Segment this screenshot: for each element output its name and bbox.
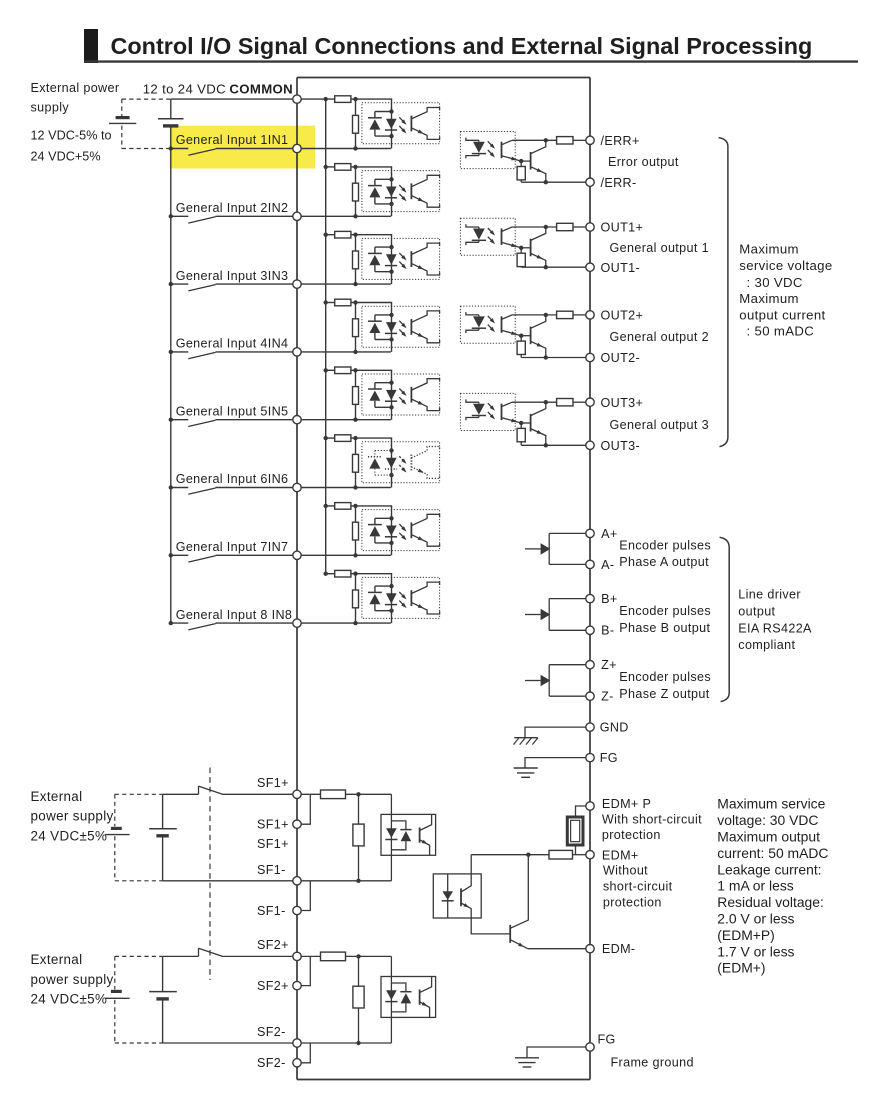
resistor R5b (parallel) bbox=[353, 370, 359, 422]
external power supply dashed box (SF2) bbox=[115, 956, 163, 1043]
svg-text:General Input 8 IN8: General Input 8 IN8 bbox=[176, 608, 293, 622]
terminal COMMON bbox=[293, 95, 301, 103]
terminal EDM+P bbox=[586, 802, 594, 810]
terminal A+ bbox=[586, 529, 594, 537]
optocoupler PC_OUT1 output bbox=[460, 218, 521, 255]
external power supply dashed box (SF1) bbox=[115, 794, 163, 881]
resistor R2a (series) bbox=[335, 164, 351, 171]
svg-text:output current: output current bbox=[739, 307, 825, 322]
svg-text:(EDM+P): (EDM+P) bbox=[717, 927, 775, 943]
label FG (frame) bbox=[598, 1033, 616, 1047]
terminal SF1- pin2 bbox=[293, 906, 301, 914]
label SF2+ pin2 bbox=[257, 979, 289, 993]
yellow highlight on General Input 1IN1 bbox=[170, 126, 316, 169]
label encoder pulses A bbox=[619, 539, 711, 553]
battery B1 24VDC bbox=[149, 794, 177, 881]
wire GND bbox=[525, 727, 586, 738]
resistor R_OUT1b bbox=[517, 248, 525, 267]
optocoupler PC5 input bbox=[362, 370, 440, 419]
optocoupler PC_OUT2 output bbox=[460, 306, 521, 343]
label A+ bbox=[601, 527, 617, 541]
label SF1- pin2 bbox=[257, 904, 286, 918]
label encoder pulses Z bbox=[619, 670, 711, 684]
svg-text:protection: protection bbox=[603, 896, 662, 910]
terminal EDM+ bbox=[586, 851, 594, 859]
resistor R6b (parallel) bbox=[353, 438, 359, 490]
svg-text:B-: B- bbox=[601, 624, 614, 638]
junction supply bus row 1 bbox=[169, 146, 173, 150]
svg-text:External power: External power bbox=[31, 81, 120, 95]
resistor R_OUT2b bbox=[517, 336, 525, 358]
label OUT1+ bbox=[601, 221, 644, 235]
terminal SF1+ bbox=[293, 790, 301, 798]
note line driver output bbox=[738, 588, 812, 653]
terminal EDM- bbox=[586, 945, 594, 953]
terminal IN8 bbox=[293, 619, 301, 627]
label SF1+ pin3 bbox=[257, 837, 289, 851]
transistor Q_OUT3 bbox=[531, 402, 546, 445]
svg-text:COMMON: COMMON bbox=[229, 82, 293, 97]
resistor R_OUT3s bbox=[557, 399, 573, 406]
terminal GND bbox=[586, 723, 594, 731]
resistor R5a (series) bbox=[335, 367, 351, 374]
svg-text:Maximum: Maximum bbox=[739, 242, 799, 257]
wire cell 6 top bbox=[326, 437, 393, 439]
svg-text:General Input 6IN6: General Input 6IN6 bbox=[176, 472, 289, 486]
resistor R3b (parallel) bbox=[353, 235, 359, 287]
wire cell 8 top bbox=[326, 573, 393, 575]
junction supply bus row 7 bbox=[169, 553, 173, 557]
resistor R_ERRb bbox=[517, 161, 525, 182]
switch input 6 bbox=[171, 488, 216, 495]
svg-text:/ERR+: /ERR+ bbox=[601, 134, 640, 148]
junction base node OUT2 bbox=[519, 334, 531, 338]
optocoupler PC_ERR output bbox=[460, 132, 521, 169]
resistor R4b (parallel) bbox=[353, 303, 359, 355]
svg-text:Frame ground: Frame ground bbox=[611, 1056, 694, 1070]
wire cell 2 top bbox=[326, 166, 393, 168]
svg-text:Without: Without bbox=[603, 864, 648, 878]
line driver phase A bbox=[525, 533, 586, 564]
junction base node OUT3 bbox=[519, 421, 531, 425]
terminal /ERR+ bbox=[586, 136, 594, 144]
junction supply bus row 6 bbox=[169, 485, 173, 489]
terminal IN1 bbox=[293, 144, 301, 152]
earth ground symbol FG bbox=[514, 768, 538, 777]
svg-text:A-: A- bbox=[601, 558, 614, 572]
wire SF2- row bbox=[163, 1042, 293, 1044]
terminal SF2+ pin2 bbox=[293, 981, 301, 989]
svg-text:General Input 1IN1: General Input 1IN1 bbox=[176, 133, 289, 147]
wire OUT2- bbox=[521, 355, 586, 359]
label General Input 4 bbox=[176, 337, 289, 351]
label external power supply (SF1) bbox=[31, 789, 114, 844]
terminal OUT1+ bbox=[586, 223, 594, 231]
svg-text:SF2+: SF2+ bbox=[257, 979, 289, 993]
resistor R2b (parallel) bbox=[353, 167, 359, 219]
svg-text:FG: FG bbox=[600, 751, 618, 765]
optocoupler PC8 input bbox=[362, 574, 440, 623]
svg-text:General Input 2IN2: General Input 2IN2 bbox=[176, 201, 289, 215]
label A- bbox=[601, 558, 614, 572]
svg-text:OUT3-: OUT3- bbox=[601, 439, 641, 453]
junction feed bus cell 1 bbox=[324, 97, 358, 101]
wire COMMON bbox=[171, 98, 392, 100]
title text bbox=[111, 33, 813, 59]
transistor Q_EDM bbox=[510, 855, 528, 949]
resistor R_SF2s bbox=[321, 952, 346, 961]
switch input 7 bbox=[171, 555, 216, 562]
wire OUT1- bbox=[521, 265, 586, 269]
wire SF2+ internal bbox=[301, 954, 391, 958]
svg-text:protection: protection bbox=[602, 828, 661, 842]
switch input 1 bbox=[171, 149, 216, 156]
switch input 5 bbox=[171, 420, 216, 427]
label Error output bbox=[608, 155, 679, 169]
label Z- bbox=[601, 690, 614, 704]
svg-text:1 mA or less: 1 mA or less bbox=[717, 878, 793, 894]
svg-text:SF1-: SF1- bbox=[257, 863, 286, 877]
right connector bus bbox=[589, 78, 591, 1080]
svg-text:voltage: 30 VDC: voltage: 30 VDC bbox=[717, 812, 818, 828]
resistor R_SF2b bbox=[353, 956, 364, 1045]
resistor R6a (series) bbox=[335, 435, 351, 442]
terminal IN5 bbox=[293, 416, 301, 424]
svg-text:External: External bbox=[31, 952, 83, 967]
label OUT2+ bbox=[601, 309, 644, 323]
svg-text:OUT1+: OUT1+ bbox=[601, 221, 644, 235]
terminal SF2+ bbox=[293, 952, 301, 960]
resistor R_SF1b bbox=[353, 794, 364, 883]
label FG bbox=[600, 751, 618, 765]
terminal /ERR- bbox=[586, 178, 594, 186]
terminal SF2- pin2 bbox=[293, 1059, 301, 1067]
terminal IN3 bbox=[293, 280, 301, 288]
optocoupler PC_SF1 bbox=[381, 794, 436, 881]
svg-text:General Input 4IN4: General Input 4IN4 bbox=[176, 337, 289, 351]
junction feed bus cell 4 bbox=[324, 300, 358, 304]
svg-text:Maximum: Maximum bbox=[739, 291, 799, 306]
svg-text:Phase A output: Phase A output bbox=[619, 555, 709, 569]
wire cell 3 top bbox=[326, 234, 393, 236]
wire EDM opto collector to EDM+ bbox=[470, 855, 472, 874]
wire EDM opto emitter to base bbox=[471, 918, 509, 934]
wire IN8 row bbox=[216, 622, 391, 624]
junction supply bus row 4 bbox=[169, 350, 173, 354]
wire IN4 row bbox=[216, 351, 391, 353]
svg-text:Maximum output: Maximum output bbox=[717, 829, 820, 845]
svg-text:SF2-: SF2- bbox=[257, 1025, 286, 1039]
terminal A- bbox=[586, 560, 594, 568]
label General Input 3 bbox=[176, 269, 289, 283]
optocoupler PC3 input bbox=[362, 235, 440, 284]
svg-text:External: External bbox=[31, 789, 83, 804]
line driver phase Z bbox=[525, 665, 586, 697]
svg-text:SF1+: SF1+ bbox=[257, 818, 289, 832]
wire SF1+ internal bbox=[301, 792, 391, 796]
svg-text:12 VDC-5% to: 12 VDC-5% to bbox=[31, 128, 112, 142]
svg-text:12 to 24 VDC: 12 to 24 VDC bbox=[143, 82, 226, 97]
label OUT1- bbox=[601, 261, 641, 275]
wire frame ground bbox=[527, 1047, 586, 1058]
label Z+ bbox=[601, 658, 617, 672]
wire IN2 row bbox=[216, 215, 391, 217]
transistor Q_OUT2 bbox=[531, 315, 546, 358]
svg-text:EDM+: EDM+ bbox=[602, 849, 639, 863]
junction supply bus row 2 bbox=[169, 214, 173, 218]
switch input 3 bbox=[171, 284, 216, 291]
label General Input 1 bbox=[176, 133, 289, 147]
svg-text:OUT2-: OUT2- bbox=[601, 351, 641, 365]
label OUT3- bbox=[601, 439, 641, 453]
label EDM+P bbox=[602, 797, 702, 842]
terminal OUT2- bbox=[586, 353, 594, 361]
switch input 2 bbox=[171, 216, 216, 223]
junction feed bus cell 2 bbox=[324, 165, 358, 169]
terminal OUT2+ bbox=[586, 311, 594, 319]
wire cell 5 top bbox=[326, 369, 393, 371]
junction supply bus row 8 bbox=[169, 621, 173, 625]
resistor R4a (series) bbox=[335, 299, 351, 306]
svg-text:SF1+: SF1+ bbox=[257, 837, 289, 851]
svg-text:General Input 7IN7: General Input 7IN7 bbox=[176, 540, 289, 554]
label COMMON bbox=[229, 82, 293, 97]
note maximum service voltage (outputs) bbox=[739, 242, 832, 339]
wire OUT2+ bbox=[512, 313, 586, 317]
wire SF1- row bbox=[163, 880, 293, 882]
junction feed bus cell 6 bbox=[324, 436, 358, 440]
bracket output group bbox=[719, 138, 728, 447]
junction feed bus cell 8 bbox=[324, 572, 358, 576]
wire OUT3- bbox=[521, 443, 586, 447]
optocoupler PC6 input bbox=[362, 438, 440, 487]
terminal OUT1- bbox=[586, 263, 594, 271]
label SF2- pin2 bbox=[257, 1056, 286, 1070]
label SF2- bbox=[257, 1025, 286, 1039]
svg-text:General Input 5IN5: General Input 5IN5 bbox=[176, 404, 289, 418]
junction supply bus row 5 bbox=[169, 418, 173, 422]
title underline bbox=[84, 60, 858, 62]
svg-text:2.0 V or less: 2.0 V or less bbox=[717, 911, 794, 927]
svg-text:: 50 mADC: : 50 mADC bbox=[747, 324, 815, 339]
terminal FG bbox=[586, 753, 594, 761]
wire IN3 row bbox=[216, 283, 391, 285]
label EDM- bbox=[602, 942, 636, 956]
earth ground symbol frame bbox=[515, 1058, 539, 1067]
svg-text:Encoder pulses: Encoder pulses bbox=[619, 539, 711, 553]
optocoupler PC2 input bbox=[362, 167, 440, 216]
terminal SF1+ pin2 bbox=[293, 820, 301, 828]
label GND bbox=[600, 721, 629, 735]
svg-text:(EDM+): (EDM+) bbox=[717, 960, 765, 976]
label General output 3 bbox=[610, 418, 709, 432]
note EDM specs bbox=[717, 796, 828, 976]
resistor R3a (series) bbox=[335, 231, 351, 238]
label /ERR- bbox=[601, 176, 637, 190]
resistor R_EDM protected (double border) bbox=[567, 806, 586, 855]
svg-text:General output 3: General output 3 bbox=[610, 418, 709, 432]
label EDM+ bbox=[602, 849, 673, 910]
bracket line driver group bbox=[720, 537, 730, 701]
svg-text:: 30 VDC: : 30 VDC bbox=[747, 275, 803, 290]
svg-text:EDM+ P: EDM+ P bbox=[602, 797, 651, 811]
wire /ERR- bbox=[521, 180, 586, 184]
label General output 1 bbox=[610, 241, 709, 255]
label SF1+ bbox=[257, 776, 289, 790]
wire OUT3+ bbox=[512, 400, 586, 404]
wire SF1- internal bbox=[301, 880, 391, 882]
svg-text:/ERR-: /ERR- bbox=[601, 176, 637, 190]
svg-text:GND: GND bbox=[600, 721, 629, 735]
terminal FG (frame) bbox=[586, 1043, 594, 1051]
svg-text:SF1+: SF1+ bbox=[257, 776, 289, 790]
svg-text:OUT2+: OUT2+ bbox=[601, 309, 644, 323]
label Frame ground bbox=[611, 1056, 694, 1070]
optocoupler PC7 input bbox=[362, 506, 440, 555]
svg-text:SF2+: SF2+ bbox=[257, 938, 289, 952]
svg-text:A+: A+ bbox=[601, 527, 617, 541]
switch safety SF2 bbox=[163, 948, 293, 956]
svg-text:EIA RS422A: EIA RS422A bbox=[738, 622, 812, 636]
label 12 VDC-5% to bbox=[31, 128, 112, 142]
top edge wire bbox=[297, 77, 590, 79]
label SF2+ bbox=[257, 938, 289, 952]
switch input 4 bbox=[171, 352, 216, 359]
label /ERR+ bbox=[601, 134, 640, 148]
line driver phase B bbox=[525, 599, 586, 631]
wire EDM- bbox=[528, 948, 586, 950]
wire FG bbox=[525, 758, 586, 768]
terminal IN4 bbox=[293, 348, 301, 356]
feed bus from COMMON bbox=[325, 99, 327, 574]
label OUT3+ bbox=[601, 396, 644, 410]
svg-text:power supply: power supply bbox=[31, 809, 114, 824]
transistor Q_ERR bbox=[531, 140, 546, 182]
battery B1a (in dashed box) bbox=[105, 828, 129, 834]
resistor R_OUT2s bbox=[557, 311, 573, 318]
resistor R_OUT1s bbox=[557, 223, 573, 230]
strap SF2+ pin2 bbox=[301, 956, 310, 985]
wire SF2- internal bbox=[301, 1042, 391, 1044]
label SF1+ pin2 bbox=[257, 818, 289, 832]
svg-text:EDM-: EDM- bbox=[602, 942, 636, 956]
label General Input 6 bbox=[176, 472, 289, 486]
svg-text:Z+: Z+ bbox=[601, 658, 617, 672]
svg-text:supply: supply bbox=[31, 101, 70, 115]
optocoupler PC4 input bbox=[362, 303, 440, 352]
svg-text:Phase B output: Phase B output bbox=[619, 621, 710, 635]
svg-text:Maximum service: Maximum service bbox=[717, 796, 825, 812]
title block bar bbox=[84, 29, 98, 63]
optocoupler PC_EDM bbox=[433, 874, 481, 918]
svg-text:SF2-: SF2- bbox=[257, 1056, 286, 1070]
resistor R1a (series) bbox=[335, 96, 351, 103]
wire /ERR+ bbox=[512, 138, 586, 142]
optocoupler PC_OUT3 output bbox=[460, 393, 521, 430]
label OUT2- bbox=[601, 351, 641, 365]
svg-text:B+: B+ bbox=[601, 592, 617, 606]
label General Input 8 bbox=[176, 608, 293, 622]
svg-text:Phase Z output: Phase Z output bbox=[619, 687, 709, 701]
label 24 VDC+5% bbox=[31, 149, 101, 163]
svg-text:service voltage: service voltage bbox=[739, 258, 832, 273]
junction feed bus cell 3 bbox=[324, 233, 358, 237]
wire IN5 row bbox=[216, 419, 391, 421]
label encoder pulses B bbox=[619, 604, 711, 618]
battery B2a (in dashed box) bbox=[105, 991, 129, 998]
svg-text:OUT1-: OUT1- bbox=[601, 261, 641, 275]
junction feed bus cell 5 bbox=[324, 368, 358, 372]
strap SF1- pin2 bbox=[301, 881, 310, 911]
svg-text:Encoder pulses: Encoder pulses bbox=[619, 670, 711, 684]
terminal IN7 bbox=[293, 551, 301, 559]
battery B0a (in dashed box) bbox=[109, 118, 136, 124]
external power supply dashed box (top) bbox=[122, 99, 171, 148]
svg-text:24 VDC±5%: 24 VDC±5% bbox=[31, 829, 108, 844]
resistor R8a (series) bbox=[335, 570, 351, 577]
label external power supply (SF2) bbox=[31, 952, 114, 1007]
resistor R_EDM+ series bbox=[471, 850, 586, 859]
svg-text:compliant: compliant bbox=[738, 638, 795, 652]
svg-text:power supply: power supply bbox=[31, 972, 114, 987]
resistor R8b (parallel) bbox=[353, 574, 359, 626]
battery B0 12-24VDC bbox=[158, 99, 184, 148]
optocoupler PC1 input bbox=[362, 99, 440, 148]
label General output 2 bbox=[610, 330, 709, 344]
svg-text:Leakage current:: Leakage current: bbox=[717, 861, 821, 877]
svg-text:1.7 V or less: 1.7 V or less bbox=[717, 943, 794, 959]
terminal OUT3+ bbox=[586, 398, 594, 406]
label General Input 7 bbox=[176, 540, 289, 554]
svg-text:SF1-: SF1- bbox=[257, 904, 286, 918]
junction base node ERR bbox=[519, 159, 531, 163]
svg-text:FG: FG bbox=[598, 1033, 616, 1047]
resistor R7a (series) bbox=[335, 503, 351, 510]
strap SF1+ pin2 bbox=[301, 794, 310, 824]
svg-text:With short-circuit: With short-circuit bbox=[602, 813, 702, 827]
terminal IN2 bbox=[293, 212, 301, 220]
bottom edge wire bbox=[297, 1079, 590, 1081]
switch input 8 bbox=[171, 623, 216, 630]
terminal OUT3- bbox=[586, 441, 594, 449]
terminal Z- bbox=[586, 692, 594, 700]
junction feed bus cell 7 bbox=[324, 504, 358, 508]
transistor Q_OUT1 bbox=[531, 227, 546, 267]
label B- bbox=[601, 624, 614, 638]
wire IN6 row bbox=[216, 487, 391, 489]
svg-text:General output 1: General output 1 bbox=[610, 241, 709, 255]
terminal B+ bbox=[586, 594, 594, 602]
label B+ bbox=[601, 592, 617, 606]
junction base node OUT1 bbox=[519, 246, 531, 250]
label General Input 2 bbox=[176, 201, 289, 215]
svg-text:Encoder pulses: Encoder pulses bbox=[619, 604, 711, 618]
label phase Z output bbox=[619, 687, 709, 701]
svg-text:Residual voltage:: Residual voltage: bbox=[717, 894, 824, 910]
terminal B- bbox=[586, 626, 594, 634]
terminal Z+ bbox=[586, 661, 594, 669]
label phase B output bbox=[619, 621, 710, 635]
strap SF2- pin2 bbox=[301, 1043, 310, 1063]
resistor R1b (parallel) bbox=[353, 99, 359, 151]
wire IN1 row bbox=[216, 148, 391, 150]
terminal IN6 bbox=[293, 483, 301, 491]
svg-text:short-circuit: short-circuit bbox=[603, 880, 673, 894]
wire cell 7 top bbox=[326, 505, 393, 507]
optocoupler PC_SF2 bbox=[381, 956, 436, 1043]
left supply bus bbox=[170, 149, 172, 624]
wire cell 4 top bbox=[326, 302, 393, 304]
